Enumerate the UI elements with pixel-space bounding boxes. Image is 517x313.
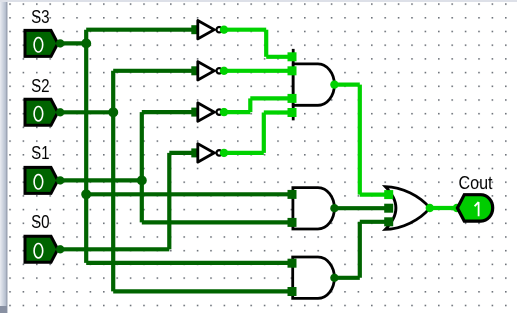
junction node S3-AND2 branch [81,189,91,199]
wire AND1 input 1 [266,55,292,59]
window top border [0,0,517,2]
svg-text:S3: S3 [31,7,50,27]
input pin S3 [25,30,64,56]
wire S3 branch to AND2 input A (H2) [86,192,292,196]
AND gate U6 (middle) [288,188,339,229]
wire NOT1 output [224,28,267,32]
wire S3 branch to AND3 input A (H5) [86,261,292,265]
wire vertical bus S1 (V3) [140,112,144,222]
output pin Cout [453,195,493,221]
wire NOT4 output [224,151,264,155]
AND gate U5 (top, 4 inputs) [288,49,339,121]
inverter U2 (NOT gate, S2) [191,62,228,80]
wire NOT3 output [224,110,251,114]
svg-text:Cout: Cout [458,173,492,193]
wire NOT1 riser [264,30,268,57]
wire vertical bus S2 (V2) [111,71,115,292]
wire S2 branch to AND3 input B (H6) [113,289,292,293]
wire AND3 output run [334,276,359,280]
wire NOT2 output to AND1 input 2 [224,69,292,73]
wire OR input C [360,220,389,224]
junction node S1 [137,175,147,185]
wire NOT2 input [113,69,195,73]
wire AND1 output [334,82,359,86]
wire AND2 output to OR input B [334,206,388,210]
wire S0 pin run (H4) [56,247,169,251]
wire S1 pin to junction [56,178,142,182]
wire vertical bus S3 (V1) [84,30,88,263]
svg-text:S0: S0 [31,212,50,232]
input pin S1 [25,167,64,193]
junction node S2 [108,107,118,117]
wire NOT1 input [86,28,195,32]
input pin S0 [25,236,64,262]
wire NOT3 input [142,110,195,114]
wire S2 pin to junction [56,110,113,114]
wire OR input A [360,193,389,197]
wire vertical S0 riser (V4) [167,153,171,249]
wire S3 pin to junction [56,41,86,45]
input pin S2 [25,99,64,125]
wire AND3 riser to OR [358,222,362,278]
inverter U4 (NOT gate, S0) [191,144,228,162]
wire OR output to Cout [430,206,457,210]
svg-text:S1: S1 [31,143,50,163]
inverter U3 (NOT gate, S1) [191,103,228,121]
window left border [0,0,7,313]
wire AND1 input 3 [250,96,292,100]
wire NOT4 input [169,151,195,155]
wire AND1 riser to OR [358,85,362,195]
wire NOT3 riser [248,98,252,112]
svg-text:S2: S2 [31,76,50,96]
wire S1 branch to AND2 input B (H3) [142,220,292,224]
wire AND1 input 4 [264,110,292,114]
OR gate U8 [384,187,434,230]
wire NOT4 riser [262,113,266,153]
junction node S3 [81,38,91,48]
inverter U1 (NOT gate, S3) [191,21,228,39]
AND gate U7 (bottom) [288,257,339,298]
